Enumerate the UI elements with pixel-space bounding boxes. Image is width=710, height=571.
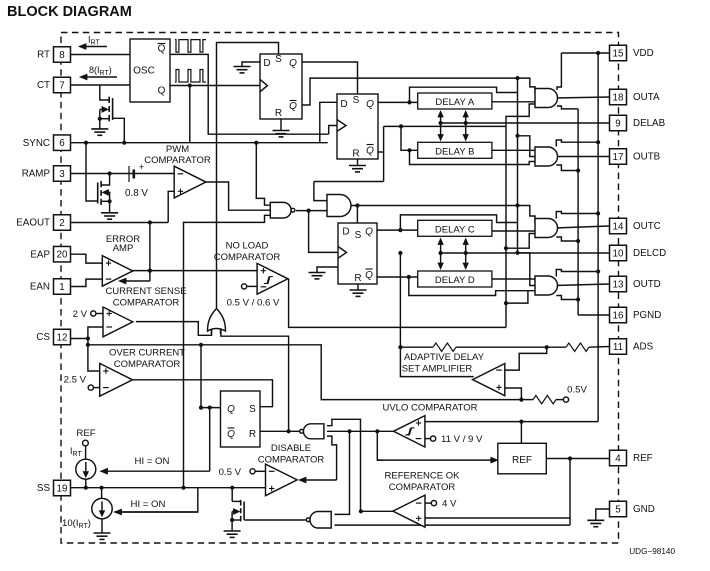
terminal 0.5V	[563, 397, 568, 402]
wire REF block feed	[520, 422, 522, 444]
transistor CT mosfet	[108, 97, 110, 103]
svg-text:0.8 V: 0.8 V	[125, 188, 148, 199]
node SS to current source 1	[84, 486, 88, 490]
wire OUTB output to pin	[554, 156, 610, 158]
wire ADS amp output loop	[400, 347, 473, 376]
logic NAND4 gate	[310, 512, 331, 529]
svg-text:BLOCK DIAGRAM: BLOCK DIAGRAM	[7, 4, 132, 20]
logic OUTD gate	[535, 276, 558, 295]
wire REF to reference-ok plus	[425, 459, 570, 519]
svg-text:NO LOAD: NO LOAD	[226, 241, 269, 252]
svg-text:2.5 V: 2.5 V	[64, 375, 87, 386]
IC boundary dashed border	[61, 33, 619, 544]
svg-text:Q: Q	[158, 44, 166, 55]
waveform Qbar clock	[175, 40, 206, 53]
terminal 0.5V/0.6V	[242, 284, 247, 289]
svg-text:VDD: VDD	[633, 48, 654, 59]
svg-text:D: D	[263, 58, 270, 69]
wire SYNC to FF2 D input	[320, 102, 337, 142]
pin DELAB 9	[610, 115, 627, 131]
wire CS pin net	[71, 338, 88, 340]
latch SR	[221, 391, 261, 447]
wire drop to REF enable arrow	[377, 431, 382, 460]
wire HI=ON 2 feed riser	[115, 488, 198, 512]
wire latch Q output	[201, 407, 221, 409]
flipflop FF3	[338, 223, 377, 284]
svg-text:EAN: EAN	[30, 282, 50, 293]
node ADS plus	[519, 398, 523, 402]
wire OSC Qbar output to FF2 clock	[170, 54, 329, 134]
wire EAOUT riser to PWM plus	[168, 191, 174, 222]
wire CS to over current plus	[88, 345, 100, 371]
resistor to 0.5V terminal	[533, 395, 556, 403]
node SYNC to CT-mosfet gate	[122, 141, 126, 145]
pin ADS 11	[610, 339, 627, 355]
pin CT 7	[54, 77, 71, 93]
ground at FF2 R	[349, 165, 366, 167]
wire ADS plus node	[505, 388, 522, 400]
node UVLO line branch 2	[375, 429, 379, 433]
wire FF3 R to ground	[357, 284, 359, 290]
wire FF2 clock jog	[329, 126, 337, 135]
svg-text:9: 9	[615, 118, 620, 129]
svg-text:OUTD: OUTD	[633, 279, 661, 290]
wire CT pin to OSC	[71, 84, 131, 86]
svg-text:COMPARATOR: COMPARATOR	[214, 252, 281, 263]
wire SYNC riser	[189, 86, 191, 143]
wire 2V to current sense comparator	[96, 313, 103, 315]
wire FF2 Qbar vertical	[383, 126, 385, 181]
svg-text:1: 1	[59, 282, 64, 293]
wire OUTC top stub to VDD bus	[556, 212, 598, 219]
wire PWM NAND output to AND2 and FF3 area	[296, 210, 331, 212]
wire HI=ON 1 line	[209, 408, 211, 472]
svg-text:S: S	[249, 404, 256, 415]
wire NAND4 bottom input line	[335, 524, 571, 526]
svg-text:4 V: 4 V	[442, 499, 457, 510]
svg-text:OUTC: OUTC	[633, 221, 661, 232]
ground at RAMP mosfet	[101, 212, 118, 214]
svg-text:OSC: OSC	[133, 66, 155, 77]
current source IRT	[76, 459, 96, 479]
terminal 0.5V disable	[250, 469, 255, 474]
svg-text:DELAY D: DELAY D	[435, 275, 475, 286]
wire NAND3 bottom input from disable comparator	[327, 436, 337, 480]
wire DELCD net with arrows	[441, 252, 610, 254]
svg-text:6: 6	[59, 138, 65, 149]
wire FF3 S drop	[356, 206, 358, 224]
node on CS line	[199, 343, 203, 347]
node VDD line to REF block	[519, 420, 523, 424]
svg-text:REF: REF	[512, 455, 532, 466]
pin EAOUT 2	[54, 215, 71, 231]
svg-text:AMP: AMP	[113, 243, 134, 254]
svg-text:3: 3	[59, 169, 65, 180]
svg-text:0.5 V: 0.5 V	[219, 467, 242, 478]
wire REFOK output line	[361, 510, 393, 512]
wire no-load line from comparator to bus	[289, 279, 506, 328]
node CS branch down	[86, 343, 90, 347]
ground at FF1 R	[273, 130, 290, 132]
wire NAND1 out drop to FF3 clock	[309, 211, 338, 253]
terminal 11V/9V	[425, 438, 431, 440]
wire SS vertical to PWM NAND bottom input	[184, 215, 273, 487]
pin SS 19	[54, 480, 71, 496]
svg-text:COMPARATOR: COMPARATOR	[113, 298, 180, 309]
wire bus staircase into OUTB gate	[518, 136, 542, 157]
node REFOK out branch	[359, 509, 363, 513]
wire OUTD output to pin	[554, 284, 610, 286]
wire EAOUT net	[71, 222, 169, 224]
node CS branch up	[86, 336, 90, 340]
oscillator OSC	[130, 39, 170, 102]
wire SS mosfet gate lead	[244, 519, 245, 521]
wire FF3 Qbar to DELAY D input	[377, 276, 418, 278]
node SS to NAND riser	[181, 486, 185, 490]
wire OSC Q output to FF1 clock and SYNC riser	[170, 85, 260, 87]
wire FF1 D input to ground	[242, 62, 260, 67]
wire disable output with arrow	[306, 479, 337, 481]
node UVLO line branch 1	[347, 429, 351, 433]
svg-text:17: 17	[613, 152, 624, 163]
svg-text:R: R	[275, 108, 282, 119]
svg-text:Q: Q	[158, 86, 166, 97]
svg-text:COMPARATOR: COMPARATOR	[389, 482, 456, 493]
wire bus staircase into OUTD gate	[518, 253, 542, 286]
node latch Q to CS line riser	[199, 406, 203, 410]
wire DELAY B output to OUTB gate	[492, 149, 541, 151]
wire NAND3 top input staircase from REFOK output	[327, 419, 361, 511]
svg-text:D: D	[342, 227, 349, 238]
node AND2 rail to OUTC top input	[515, 203, 519, 207]
node FF3 Qbar branch	[407, 275, 411, 279]
svg-text:COMPARATOR: COMPARATOR	[144, 155, 211, 166]
wire OUTB top stub to VDD bus	[556, 140, 598, 147]
svg-text:RT: RT	[37, 50, 50, 61]
block DELAY A	[418, 93, 492, 109]
wire FF2 Qbar stub	[378, 151, 384, 153]
wire DELAY B feed	[401, 126, 418, 150]
wire DELAY C output to OUTC gate	[492, 230, 541, 232]
svg-text:7: 7	[59, 80, 64, 91]
svg-text:REF: REF	[633, 453, 653, 464]
wire OUTC output to pin	[554, 226, 610, 228]
svg-text:DISABLE: DISABLE	[271, 443, 311, 454]
wire OUTB bottom stub to PGND bus	[556, 165, 578, 171]
transistor SS mosfet	[240, 500, 242, 506]
svg-text:REF: REF	[76, 428, 95, 439]
wire EAOUT drop to error amp output	[149, 223, 151, 271]
svg-text:DELAY B: DELAY B	[435, 146, 474, 157]
wire EAN pin to error amp minus	[71, 279, 103, 286]
svg-text:Q: Q	[366, 99, 374, 110]
wire hat over DELAY A into OUTA top input	[410, 87, 518, 102]
wire FF2 Q to DELAY A input	[378, 101, 418, 103]
node DELAY B feed branch	[407, 148, 411, 152]
logic OUTA gate	[535, 89, 558, 108]
svg-text:UDG−98140: UDG−98140	[629, 547, 675, 556]
wire clamp arrow into error amp	[149, 271, 151, 281]
svg-text:RAMP: RAMP	[22, 169, 51, 180]
wire hat over DELAY C into OUTC top input	[400, 215, 517, 230]
pin OUTD 13	[610, 276, 627, 292]
pin CS 12	[54, 329, 71, 345]
waveform Q clock	[175, 70, 206, 83]
pin REF 4	[610, 450, 627, 466]
node RAMP mosfet drain	[108, 171, 112, 175]
wire FF3 Q to DELAY C input	[377, 229, 418, 231]
wire CS to current sense minus	[88, 327, 103, 339]
wire RAMP pin to battery and PWM minus	[71, 173, 175, 175]
bus no-load vertical	[505, 126, 507, 325]
wire OUTA bottom input staircase to under-A line	[506, 104, 541, 126]
svg-text:PGND: PGND	[633, 310, 661, 321]
logic OUTB gate	[535, 147, 558, 166]
svg-text:DELAY C: DELAY C	[435, 224, 475, 235]
wire under DELAY B hat into OUTB bottom input	[410, 150, 542, 164]
wire 2.5V to over current minus	[93, 387, 99, 389]
wire ADS resistor line	[400, 346, 433, 348]
svg-text:10: 10	[613, 248, 624, 259]
svg-text:HI = ON: HI = ON	[135, 456, 170, 467]
wire under DELAY D	[409, 277, 528, 296]
logic NAND3 disable gate	[303, 424, 323, 439]
ground at GND pin	[587, 519, 604, 521]
svg-text:UVLO COMPARATOR: UVLO COMPARATOR	[382, 403, 477, 414]
wire riser latch Q to CS line	[200, 345, 202, 408]
label IRT with arrow	[86, 46, 107, 48]
node ADS amp output	[398, 345, 402, 349]
logic AND2 steering	[327, 195, 351, 217]
transistor RAMP mosfet	[100, 181, 102, 187]
wire under DELAY A line	[384, 125, 506, 127]
bus PGND vertical	[577, 109, 579, 315]
svg-text:GND: GND	[633, 504, 655, 515]
wire drop to NAND4 top input	[335, 431, 350, 514]
node bus to OUTB mid input	[515, 134, 519, 138]
svg-text:SS: SS	[37, 483, 51, 494]
wire DELAB net with arrows	[441, 122, 610, 124]
wire FF1 Q to FF2 S	[302, 62, 358, 94]
svg-text:R: R	[352, 149, 359, 160]
wire OUTD bottom stub from no-load bus	[506, 291, 541, 303]
delay arrows C-D	[440, 245, 442, 264]
wire OUTA gate bottom to PGND bus	[557, 106, 578, 109]
ground at FF1 D	[234, 66, 251, 68]
terminal 4V	[425, 502, 431, 504]
wire PGND to pin	[578, 314, 609, 316]
block REF	[498, 443, 547, 474]
wire OUTC bottom input staircase	[506, 234, 541, 249]
wire GND pin to ground	[596, 509, 610, 520]
pin RT 8	[54, 47, 71, 63]
wire NAND4 output to mosfet gate	[245, 519, 305, 521]
battery 0.8V	[128, 166, 130, 182]
svg-text:8: 8	[59, 50, 65, 61]
wire over current output to latch S	[133, 380, 273, 407]
node under-C bus junction	[504, 246, 508, 250]
node ADS minus to resistor net	[545, 345, 549, 349]
svg-text:REFERENCE OK: REFERENCE OK	[385, 471, 461, 482]
wire VDD net	[561, 52, 609, 54]
pin OUTA 18	[610, 89, 627, 105]
svg-text:14: 14	[613, 221, 624, 232]
wire FF1 R to ground	[280, 119, 282, 131]
pin RAMP 3	[54, 166, 71, 182]
logic OUTC gate	[535, 219, 558, 238]
wire OUTC bottom stub to PGND bus	[556, 237, 578, 241]
ground at CT mosfet	[91, 128, 108, 130]
wire EAP pin to error amp plus	[71, 254, 103, 263]
wire UVLO plus input from VDD bus	[425, 421, 598, 423]
node EAOUT branch to error amp	[148, 220, 152, 224]
svg-text:D: D	[340, 99, 347, 110]
node DELCD to bus	[515, 251, 519, 255]
wire VDD stub to OUTA gate top	[557, 53, 561, 90]
node NAND output branch	[307, 209, 311, 213]
svg-text:SYNC: SYNC	[23, 138, 50, 149]
svg-text:2 V: 2 V	[73, 309, 88, 320]
svg-text:CS: CS	[36, 332, 50, 343]
svg-text:Q: Q	[289, 101, 297, 112]
node disable plus to mosfet drain	[230, 486, 234, 490]
wire DELAY A output to OUTA gate	[492, 101, 541, 103]
svg-text:OUTB: OUTB	[633, 152, 661, 163]
node FF1 Qbar rail to bus	[515, 76, 519, 80]
svg-text:S: S	[355, 230, 362, 241]
ground at FF3 D	[309, 272, 326, 274]
pin SYNC 6	[54, 135, 71, 151]
wire OUTD top stub to VDD bus	[556, 270, 598, 277]
svg-text:Q: Q	[365, 227, 373, 238]
svg-text:CT: CT	[37, 80, 50, 91]
wire AND2 top input drop	[314, 182, 336, 201]
svg-text:13: 13	[613, 279, 624, 290]
svg-text:EAOUT: EAOUT	[16, 218, 50, 229]
svg-text:0.5 V / 0.6 V: 0.5 V / 0.6 V	[227, 298, 280, 309]
pin OUTC 14	[610, 218, 627, 234]
svg-text:Q: Q	[227, 429, 235, 440]
svg-text:CURRENT SENSE: CURRENT SENSE	[105, 286, 186, 297]
wire CT mosfet gate to SYNC	[113, 118, 125, 142]
node no-load bus OUTD branch	[504, 301, 508, 305]
terminal 2V	[91, 311, 96, 316]
bus VDD vertical to UVLO	[597, 53, 599, 422]
wire ADS node riser from DELCD line	[399, 253, 401, 347]
svg-text:SET AMPLIFIER: SET AMPLIFIER	[402, 364, 473, 375]
wire error amp output line to no-load comparator	[132, 270, 257, 272]
svg-text:5: 5	[615, 504, 621, 515]
wire ADS minus input jog	[505, 347, 547, 370]
node OSC Q to SYNC junction	[188, 83, 192, 87]
logic PWM NAND 3-input	[270, 202, 291, 218]
svg-text:11 V / 9 V: 11 V / 9 V	[441, 434, 483, 445]
svg-text:COMPARATOR: COMPARATOR	[114, 359, 181, 370]
wire DELAY D output to OUTD gate	[492, 278, 541, 280]
wire PWM output to NAND mid input	[206, 182, 272, 210]
wire CS sense line to ADS amp plus	[88, 345, 522, 400]
pin EAP 20	[54, 246, 71, 262]
node SYNC to PWM-NAND input	[254, 141, 258, 145]
logic OR gate vertical	[208, 309, 226, 332]
wire SYNC net	[71, 142, 328, 144]
pin OUTB 17	[610, 149, 627, 165]
wire latch R from NAND3 output	[260, 430, 299, 432]
node SS to current source 2	[100, 486, 104, 490]
svg-text:Q: Q	[366, 146, 374, 157]
wire SYNC to PWM-NAND staircase	[256, 143, 272, 206]
wire OR right input from NAND3 output riser	[221, 330, 289, 431]
bus FF1 Qbar vertical	[517, 78, 519, 253]
svg-text:4: 4	[615, 453, 621, 464]
wire rail staircase into OUTA gate	[518, 78, 542, 92]
svg-text:16: 16	[613, 310, 624, 321]
label 8(IRT) with arrow	[87, 76, 117, 78]
svg-text:20: 20	[57, 250, 68, 261]
svg-text:OUTA: OUTA	[633, 92, 660, 103]
svg-text:Q: Q	[365, 270, 373, 281]
wire NAND3 mid input from UVLO output	[327, 430, 393, 432]
svg-text:R: R	[249, 429, 256, 440]
svg-text:Q: Q	[289, 58, 297, 69]
block DELAY D	[418, 271, 492, 287]
node R line branch	[287, 429, 291, 433]
svg-text:DELCD: DELCD	[633, 248, 666, 259]
wire SS pin net	[71, 487, 266, 489]
svg-text:EAP: EAP	[30, 249, 50, 260]
node SYNC to RAMP-mosfet gate	[84, 141, 88, 145]
svg-text:2: 2	[59, 218, 64, 229]
node latch Q to HI=ON drop	[208, 406, 212, 410]
svg-text:15: 15	[613, 48, 624, 59]
wire AND2 output to FF3 S and rail	[351, 205, 518, 207]
node VDD to comparator bus	[596, 51, 600, 55]
wire FF1 S input from OR gate rail	[217, 43, 279, 310]
node FF3 Q branch	[398, 228, 402, 232]
node FF2 Q branch	[407, 100, 411, 104]
ground at FF3 R	[350, 289, 367, 291]
pin PGND 16	[610, 307, 627, 323]
flipflop FF2	[337, 94, 378, 159]
pin GND 5	[610, 501, 627, 517]
svg-text:18: 18	[613, 92, 624, 103]
block DELAY C	[418, 220, 492, 236]
svg-text:0.5V: 0.5V	[567, 385, 587, 396]
svg-text:12: 12	[57, 332, 68, 343]
wire current sense output to OR gate	[136, 322, 212, 336]
pin EAN 1	[54, 279, 71, 295]
terminal 2.5V	[88, 385, 93, 390]
svg-text:PWM: PWM	[166, 144, 189, 155]
wire FF3 D input to ground	[317, 267, 338, 273]
ground at SS mosfet	[224, 530, 241, 532]
current source 10IRT	[92, 498, 112, 518]
wire RT pin to OSC	[71, 54, 131, 56]
wire mosfet drain riser	[231, 488, 233, 502]
svg-text:ADS: ADS	[633, 342, 654, 353]
node under-A to DELAY B feed	[399, 124, 403, 128]
wire OUTA output to pin	[554, 97, 610, 98]
ground at current source 2	[94, 532, 111, 534]
node AND2 out to FF3 S drop	[355, 203, 359, 207]
wire REF output to pin 4	[546, 458, 609, 460]
node DELCD to ADS riser	[398, 251, 402, 255]
svg-text:R: R	[354, 273, 361, 284]
svg-text:COMPARATOR: COMPARATOR	[258, 455, 325, 466]
wire gate lead of RAMP mosfet	[86, 143, 97, 201]
svg-text:Q: Q	[227, 404, 235, 415]
svg-text:HI = ON: HI = ON	[131, 499, 166, 510]
